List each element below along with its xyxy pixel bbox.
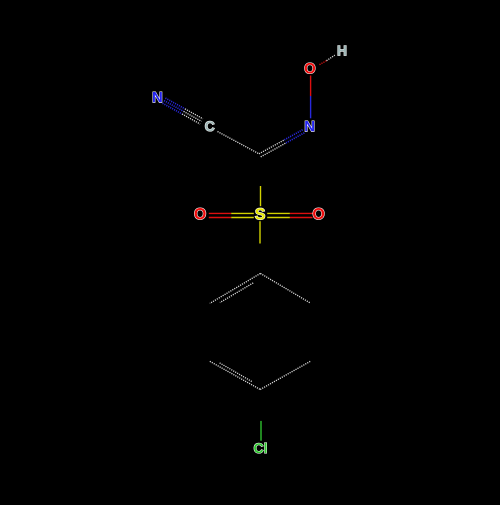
wire: bond central C to S (yellow half only, artifact) xyxy=(260,186,262,206)
atom label O sulfonyl oxygen left xyxy=(195,208,206,219)
wire: S=O left double bond (yellow halves) xyxy=(231,212,254,214)
atom label H hydroxyl hydrogen xyxy=(338,46,346,56)
wire: oxime C=N double bond line 1 xyxy=(259,140,284,154)
wire: ring edge top to upper-left (inner double line) xyxy=(220,283,253,303)
wire: bond N-O vertical (red half) xyxy=(310,76,312,97)
wire: nitrile triple bond line 2 (upper offset) xyxy=(165,98,185,109)
wire: ring edge lower-left to bottom (inner double line) xyxy=(220,363,252,382)
atom label N oxime nitrogen xyxy=(305,121,314,131)
wire: bond S to ring (yellow half only, artifact) xyxy=(259,221,261,243)
atom label O sulfonyl oxygen right xyxy=(313,208,324,219)
atom label O hydroxyl oxygen xyxy=(305,63,315,74)
wire: bond nitrile C to central C xyxy=(218,132,260,154)
wire: bond ring to Cl (green half only, artifact) xyxy=(260,421,262,441)
wire: bond O-H (grey half) xyxy=(327,55,335,61)
wire: oxime C=N double bond line 2 (offset) xyxy=(261,143,286,157)
wire: nitrile triple bond line 3 (lower offset) xyxy=(163,103,183,114)
wire: S=O right double bond (yellow halves) xyxy=(267,212,290,214)
wire: S=O left double bond (red halves) xyxy=(209,212,231,214)
wire: S=O right double bond (red halves) xyxy=(290,212,313,214)
atom label Cl chlorine xyxy=(254,443,266,453)
wire: ring edge lower-left to bottom (outer) xyxy=(210,361,260,389)
atom label C nitrile carbon xyxy=(205,121,214,131)
wire: nitrile triple bond N#C line 1 (center) xyxy=(163,98,203,124)
wire: ring edge bottom to lower-right xyxy=(260,361,310,389)
atom label N nitrile nitrogen xyxy=(153,92,162,102)
atom label S sulfonyl sulfur xyxy=(255,208,265,219)
wire: bond N-O vertical (blue half) xyxy=(310,96,312,118)
wire: ring edge top to upper-left (outer) xyxy=(210,273,261,303)
wire: ring edge top to upper-right xyxy=(260,273,310,303)
wire: bond O-H (red half) xyxy=(320,61,327,65)
